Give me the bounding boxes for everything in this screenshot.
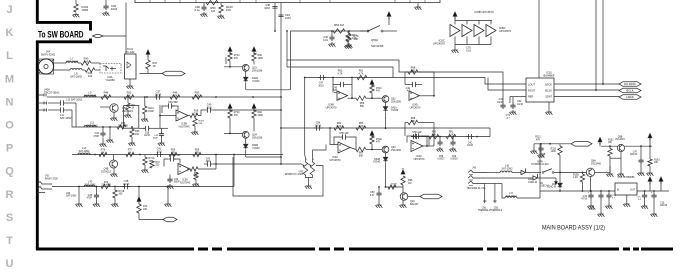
svg-text:U19C-M: U19C-M — [528, 181, 537, 184]
wire Q9A right — [595, 171, 610, 173]
bus wire y186.5 — [52, 186, 234, 188]
wire y115 opamp input — [160, 115, 176, 117]
ground below R102 — [72, 13, 79, 18]
ground below C60 — [200, 12, 207, 17]
ground below C90 — [102, 11, 109, 16]
buffer IC6D — [486, 25, 496, 37]
ground below R103 — [646, 171, 653, 176]
svg-text:2SA1036: 2SA1036 — [391, 100, 402, 103]
svg-text:SAT-10N2: SAT-10N2 — [70, 75, 82, 79]
ground below C58 — [436, 147, 443, 152]
vertical link x234 — [233, 155, 235, 187]
buffer array IC6 bottom rail — [454, 37, 456, 45]
svg-text:SAT-10N2: SAT-10N2 — [66, 195, 77, 198]
wire filter bus y128 — [281, 127, 490, 129]
diode D41B YG540 — [245, 71, 247, 76]
buffer IC6A — [450, 25, 460, 37]
power arrow x650 — [648, 134, 652, 141]
ground DAC — [548, 102, 550, 110]
svg-text:56K: 56K — [411, 69, 416, 72]
resistor R66 56K on out — [356, 96, 366, 100]
svg-text:47/16: 47/16 — [581, 199, 587, 201]
svg-text:D43B: D43B — [374, 159, 380, 161]
wire y187 link — [385, 186, 403, 188]
connector plug CN40 — [140, 73, 163, 75]
resistor R46 4.7K — [170, 95, 180, 99]
svg-text:10/16: 10/16 — [467, 145, 473, 147]
ground row bottom left — [78, 187, 80, 203]
caps on input pair — [58, 100, 66, 105]
svg-text:R10B: R10B — [573, 175, 579, 177]
wire jack out low — [486, 183, 502, 185]
wire bus x539 to DAC — [538, 0, 540, 78]
connector CN1 to SW board — [93, 34, 104, 37]
board outline notch bottom and left side — [37, 39, 90, 251]
svg-text:YG540: YG540 — [391, 110, 399, 112]
svg-text:47K: 47K — [195, 151, 200, 154]
svg-text:C42: C42 — [206, 159, 211, 161]
DAC IC10 BU9480F — [526, 78, 554, 102]
ground below R71B — [114, 198, 116, 202]
svg-text:56K: 56K — [411, 120, 416, 123]
svg-text:100/16: 100/16 — [588, 209, 596, 211]
ground below VR2 — [306, 175, 309, 178]
capacitor C30 0.01 — [331, 31, 333, 35]
svg-text:10/16: 10/16 — [497, 101, 504, 104]
svg-text:1M: 1M — [211, 9, 216, 13]
svg-text:S: S — [6, 212, 13, 224]
svg-text:2SA1036: 2SA1036 — [252, 136, 263, 139]
wire bus y67 — [287, 67, 393, 78]
resistor R710 47K — [228, 110, 232, 118]
resistor R71E 47K vertical — [370, 131, 374, 138]
svg-text:C10: C10 — [590, 207, 595, 209]
capacitor C59 0.0033 — [452, 137, 454, 140]
resistor R10B 1.2K vertical — [582, 172, 584, 174]
capacitor C7B 4.7 — [608, 191, 610, 193]
resistor R53 4.7K — [192, 95, 202, 99]
power out arrow B — [659, 177, 663, 184]
capacitor C39 56P feedback IC3A — [174, 159, 180, 164]
svg-text:CN1: CN1 — [482, 208, 487, 210]
ground below C9B — [540, 152, 542, 153]
svg-text:LRCK: LRCK — [626, 95, 634, 99]
svg-text:10K: 10K — [654, 162, 659, 164]
svg-text:470P: 470P — [87, 198, 93, 200]
svg-text:2SA1036: 2SA1036 — [252, 69, 263, 72]
resistor R96 1M vertical — [401, 176, 405, 185]
svg-text:RK08K7UC 10KB: RK08K7UC 10KB — [285, 174, 304, 176]
junction dots y154.5 — [94, 154, 96, 156]
svg-text:C36 56P: C36 56P — [168, 101, 178, 104]
svg-text:Q50A: Q50A — [371, 38, 378, 42]
inductor L70 SAT-10N2 — [84, 185, 95, 186]
svg-text:P: P — [6, 143, 13, 155]
capacitor C10B 100/16 — [653, 191, 655, 193]
wire riser x139 to plug — [138, 187, 140, 203]
svg-text:SW-SF1B: SW-SF1B — [371, 44, 384, 48]
svg-text:10/16: 10/16 — [155, 93, 162, 97]
power arrow x600 — [598, 138, 602, 145]
svg-text:BCLK: BCLK — [626, 89, 633, 93]
wire VR2 top links — [305, 158, 307, 162]
connector plug CN41 — [408, 196, 420, 198]
wire diode return upper — [246, 89, 291, 91]
svg-text:4.7K: 4.7K — [338, 72, 343, 75]
power arrow at switch — [387, 12, 391, 19]
capacitor C4C 10/16 series — [466, 134, 474, 139]
wire bus x281 — [280, 3, 282, 164]
ground IC6 rail — [454, 45, 456, 49]
resistor R71B 100 vertical — [114, 187, 116, 191]
buffer IC6B — [462, 25, 472, 37]
svg-text:R70: R70 — [104, 182, 109, 184]
svg-text:UPC4570: UPC4570 — [414, 158, 425, 161]
wire VR2 loop return — [233, 157, 323, 196]
svg-text:MASY-3736: MASY-3736 — [45, 177, 58, 180]
svg-text:CN2: CN2 — [494, 208, 499, 210]
svg-text:YG540: YG540 — [373, 162, 381, 164]
capacitor C56 feedback IC4C — [407, 136, 413, 143]
wire power feed y143.8 — [534, 143, 571, 145]
inductor L9 SAT-10N2 — [84, 96, 96, 97]
wire Q9B emitter — [620, 152, 622, 172]
wire KC12 out y128 — [139, 127, 144, 129]
svg-text:C40: C40 — [406, 88, 411, 90]
capacitor C34 470P — [102, 127, 104, 131]
opamp IC4C — [411, 141, 423, 152]
svg-text:1016: 1016 — [264, 6, 270, 10]
ground below C34 — [102, 138, 104, 143]
power arrow R47 — [146, 50, 150, 57]
svg-text:HOSBNT-01-010: HOSBNT-01-010 — [531, 164, 549, 166]
svg-text:M: M — [5, 73, 14, 85]
resistor R73 220 — [101, 184, 110, 188]
svg-text:N: N — [6, 96, 14, 108]
wire diode return lower — [245, 150, 247, 157]
svg-text:100K: 100K — [258, 114, 264, 117]
wire Q34 base — [224, 132, 242, 134]
svg-text:100: 100 — [135, 133, 140, 136]
wire switch to Q9A — [554, 171, 587, 173]
svg-text:47K: 47K — [234, 114, 239, 117]
wire jack top lead — [54, 62, 66, 64]
wire jack out top — [486, 172, 500, 174]
opamp IC4D — [409, 91, 420, 101]
wire IC4D output — [420, 95, 435, 97]
jack J43 contacts — [468, 170, 486, 184]
resistor R71 10K with ground — [347, 31, 349, 33]
svg-text:1K: 1K — [153, 64, 156, 68]
diode D42A YG540 — [385, 102, 387, 105]
wire riser x160 — [159, 105, 161, 128]
svg-text:4.7K: 4.7K — [336, 125, 341, 128]
off-page connector box top edge — [135, 0, 440, 3]
ground under box pin x418 — [417, 3, 419, 5]
svg-text:1K: 1K — [102, 151, 105, 154]
svg-text:0.47: 0.47 — [370, 194, 375, 197]
transistor Q34 2SA1036 — [242, 131, 249, 138]
svg-text:1.2K: 1.2K — [573, 177, 578, 179]
resistor R44 1K — [101, 95, 111, 99]
svg-text:D42A: D42A — [391, 107, 397, 110]
svg-text:1K: 1K — [129, 151, 132, 154]
svg-text:SAT-10N2: SAT-10N2 — [85, 183, 97, 186]
svg-text:10/16: 10/16 — [123, 183, 130, 186]
svg-text:1K: 1K — [132, 108, 135, 110]
inductor L17 SAT-10N2 — [505, 197, 517, 199]
resistor R50 1M on box edge — [206, 0, 218, 4]
connector plug LRCK — [619, 95, 641, 100]
svg-text:10K: 10K — [226, 8, 231, 12]
wire IC4D top loop y72 — [405, 71, 408, 73]
wire input riser x72 — [72, 110, 76, 127]
svg-text:L: L — [6, 50, 13, 62]
wire IC4C output to LPF — [422, 145, 435, 147]
svg-text:SAT-10N2: SAT-10N2 — [84, 94, 96, 98]
capacitor C10 100/16 — [600, 191, 602, 193]
svg-text:22K: 22K — [199, 123, 203, 125]
svg-text:UPC4570: UPC4570 — [410, 106, 421, 109]
resistor R39B 22K — [190, 167, 198, 171]
wire D42A to bus B — [385, 112, 387, 128]
wire bus x126 to photocoupler — [125, 3, 127, 56]
svg-text:C55 12P: C55 12P — [339, 132, 349, 135]
svg-text:UPC4570: UPC4570 — [499, 29, 512, 33]
svg-text:O: O — [5, 120, 14, 132]
wire power links — [590, 177, 592, 192]
left entry pins J40A — [38, 94, 47, 99]
resistor R56 47K — [169, 152, 177, 156]
resistor R38 22K — [190, 113, 198, 117]
ground below Q50 — [110, 116, 117, 121]
capacitor C54 10/16 — [314, 125, 322, 130]
wire jack out mid — [486, 177, 533, 179]
ground below C50 — [375, 203, 382, 208]
svg-text:BU9480F: BU9480F — [544, 74, 555, 78]
svg-text:R54 1M: R54 1M — [334, 23, 344, 27]
svg-text:100: 100 — [84, 60, 89, 64]
svg-text:C38: C38 — [145, 133, 150, 135]
diode D40 U19C-M — [521, 168, 525, 174]
ground below C59 — [449, 147, 456, 152]
wire IC4B minus stub — [334, 92, 337, 94]
svg-text:120K: 120K — [551, 151, 557, 153]
svg-text:IC14 TA78M05F: IC14 TA78M05F — [617, 176, 635, 179]
wire DAC REF pin — [510, 96, 526, 98]
resistor R63 4.7K — [356, 126, 366, 130]
opamp IC4B — [337, 91, 348, 101]
wire bus x603 — [602, 0, 604, 84]
svg-text:LOUT: LOUT — [528, 83, 535, 87]
resistor R71G 220 below opamp — [194, 117, 196, 120]
capacitor C36 56P feedback — [172, 106, 178, 110]
wire C41 C42 caps at DAC — [500, 103, 505, 109]
svg-text:0.0027: 0.0027 — [437, 159, 445, 161]
capacitor C43 560P — [161, 128, 163, 131]
capacitor C4B 10/16 — [122, 184, 130, 189]
capacitor C55 12P feedback — [334, 137, 340, 145]
svg-text:100: 100 — [88, 74, 93, 78]
left input pair L10 — [37, 102, 46, 104]
wire DAC right pins — [554, 83, 619, 85]
svg-text:NJU7043: NJU7043 — [180, 181, 191, 184]
thermal riser 1 — [484, 184, 486, 202]
wire into IC4A — [330, 128, 338, 145]
svg-text:C15: C15 — [583, 196, 588, 198]
resistor R36 vertical — [131, 127, 133, 129]
svg-text:R: R — [6, 189, 14, 201]
svg-text:56K: 56K — [360, 105, 365, 108]
capacitor C90 — [105, 0, 107, 4]
svg-text:10/16: 10/16 — [315, 124, 322, 127]
svg-text:1016: 1016 — [205, 161, 211, 163]
svg-text:C10: C10 — [660, 203, 665, 205]
svg-text:BCLK: BCLK — [545, 89, 552, 93]
svg-text:100/16: 100/16 — [660, 205, 668, 207]
ground below R70 — [345, 43, 352, 48]
svg-text:T: T — [6, 235, 13, 247]
transistor Q50 2SC4213 — [100, 106, 110, 108]
resistor R10E on link — [388, 185, 396, 189]
svg-text:C4C: C4C — [468, 143, 473, 145]
svg-text:THERMAL2: THERMAL2 — [490, 209, 503, 212]
power arrow above R71C — [228, 47, 232, 54]
ground regulator — [626, 195, 628, 202]
svg-text:YG540: YG540 — [252, 147, 260, 150]
svg-text:SAT-10N2: SAT-10N2 — [502, 167, 514, 170]
svg-text:REF: REF — [528, 95, 534, 99]
wire collector rail y146.2 — [601, 145, 618, 147]
svg-text:R710: R710 — [376, 88, 382, 90]
resistor R71F 100K — [144, 97, 146, 106]
resistor R40 100 — [78, 62, 81, 64]
svg-text:Q: Q — [5, 166, 14, 178]
svg-text:4.7K: 4.7K — [194, 94, 200, 98]
resistor R77 1K — [126, 152, 134, 156]
svg-text:1M: 1M — [408, 182, 411, 185]
capacitor C37 10/16 — [154, 94, 162, 99]
wire loop rectangle Q50 collector — [124, 106, 139, 129]
svg-text:2SC4116: 2SC4116 — [615, 139, 625, 141]
svg-text:10K: 10K — [352, 36, 357, 40]
capacitor C60 0.1u — [203, 3, 205, 5]
svg-text:1M: 1M — [392, 186, 395, 188]
svg-text:0.01: 0.01 — [323, 38, 329, 42]
wire input riser x76 — [75, 103, 77, 127]
svg-text:IN: IN — [617, 190, 620, 192]
svg-text:C45: C45 — [333, 88, 338, 90]
svg-text:YG540: YG540 — [252, 80, 260, 83]
inductor L8A SAT-10N2 — [70, 69, 82, 71]
svg-text:PC-A52: PC-A52 — [126, 51, 135, 54]
resistor R100 10K — [220, 3, 222, 5]
svg-text:U: U — [6, 258, 14, 270]
diode pair D4A in dashed box — [100, 64, 121, 74]
svg-text:47K: 47K — [376, 91, 381, 93]
capacitor C58 0.0027 — [439, 137, 441, 140]
transistor Q31 2SA1036 — [242, 64, 249, 71]
arrow down end y178 — [555, 178, 557, 181]
ground below C10 — [597, 212, 604, 217]
connector plug CN42 — [139, 219, 163, 221]
transistor Q4B 2SC4213 — [110, 160, 118, 168]
svg-text:47K: 47K — [536, 138, 541, 141]
svg-text:2SC4213: 2SC4213 — [101, 170, 112, 173]
svg-text:OUT: OUT — [630, 190, 635, 192]
ground below KC11 — [129, 79, 131, 84]
resistor R57 47K — [193, 152, 201, 156]
svg-text:1K: 1K — [104, 94, 107, 98]
svg-text:220-MSB: 220-MSB — [101, 185, 111, 187]
switch S9PA contacts — [542, 172, 544, 174]
left input pair L11 — [37, 109, 46, 111]
svg-text:22K: 22K — [194, 112, 199, 115]
potentiometer VR2 RK08K7UC gang A — [303, 162, 307, 175]
capacitor C40 1016 — [205, 107, 213, 112]
capacitor C42B 560P below IC3A — [169, 175, 171, 178]
VR2 wiper arrows — [301, 164, 311, 166]
capacitor C49 series on x281 — [278, 15, 283, 17]
resistor R39 560 — [117, 125, 126, 129]
analog switch Q50A — [360, 30, 368, 32]
svg-text:LRCK: LRCK — [545, 83, 552, 87]
inductor L13 SAT-10N2 — [78, 153, 90, 155]
svg-text:UPC4570: UPC4570 — [433, 42, 446, 46]
svg-text:U1NC-M: U1NC-M — [547, 187, 556, 189]
capacitor C50 0.47 — [378, 187, 380, 191]
power out arrow A — [648, 177, 652, 184]
svg-text:47K: 47K — [234, 57, 239, 60]
svg-text:SAT-10N2: SAT-10N2 — [506, 195, 518, 198]
svg-text:4.7K: 4.7K — [358, 125, 363, 128]
svg-text:C58: C58 — [439, 156, 444, 158]
wire into VR2 left — [213, 163, 301, 165]
junction dots aux bus — [146, 96, 148, 98]
wire feedback vertical x352 — [351, 78, 353, 99]
svg-text:1016: 1016 — [285, 16, 291, 20]
potentiometer VR2 gang B — [310, 162, 314, 175]
transistor Q10 BA1307 — [402, 187, 404, 193]
svg-text:10K: 10K — [608, 142, 613, 144]
capacitor C41 1016 on bus — [155, 152, 163, 157]
diode D44B YG540 — [245, 138, 247, 143]
capacitor C57 on LPF — [411, 134, 419, 139]
resistor R67D 56K top — [408, 70, 418, 74]
svg-text:1016: 1016 — [111, 7, 118, 11]
resistor R74 10K vertical — [137, 204, 141, 213]
wire IC4B output — [348, 97, 357, 99]
svg-text:UPC4570: UPC4570 — [326, 106, 337, 109]
svg-text:C56 41P: C56 41P — [412, 131, 422, 134]
svg-text:470P: 470P — [93, 135, 99, 138]
svg-text:R71E: R71E — [376, 139, 382, 141]
svg-text:C59: C59 — [452, 156, 457, 158]
resistor R71C 47K — [228, 53, 232, 61]
ground below Q10 — [402, 200, 404, 203]
ground x168 — [167, 187, 169, 203]
resistor R90 100K — [252, 53, 256, 61]
ground Q4B — [113, 168, 115, 172]
svg-text:220/16: 220/16 — [630, 154, 638, 156]
svg-text:ROUT: ROUT — [528, 89, 536, 93]
svg-text:MAIN BOARD ASSY (1/2): MAIN BOARD ASSY (1/2) — [542, 225, 605, 232]
capacitor C9B 4.7 — [540, 144, 542, 146]
capacitor C45 12P feedback — [338, 82, 346, 87]
resistor R80 56K — [429, 134, 439, 138]
resistor R71D 47K vertical — [370, 85, 374, 93]
connector plug DATA — [619, 82, 641, 87]
